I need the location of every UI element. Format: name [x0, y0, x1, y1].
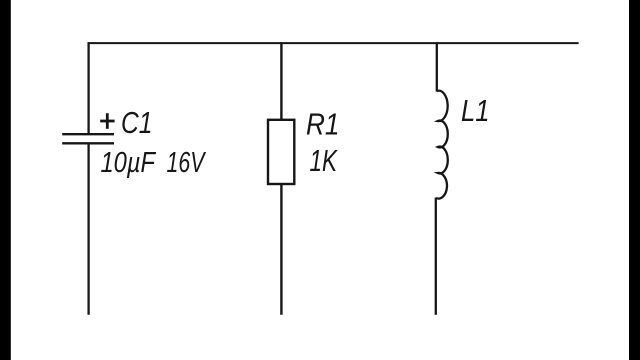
right black bar [629, 0, 640, 360]
wire L1 top [436, 42, 438, 91]
svg-text:R1: R1 [306, 108, 340, 142]
wire L1 bottom [435, 198, 437, 315]
wire R1 bottom [280, 183, 282, 315]
wire top bus [88, 42, 579, 44]
wire C1 bottom [87, 143, 89, 314]
left black bar [0, 0, 11, 360]
inductor L1 [436, 91, 448, 199]
svg-text:L1: L1 [461, 94, 490, 128]
svg-text:16V: 16V [167, 147, 207, 179]
svg-text:1K: 1K [310, 144, 339, 178]
svg-text:C1: C1 [121, 106, 153, 140]
C1 polarity plus [100, 113, 114, 129]
svg-text:10µF: 10µF [101, 147, 157, 179]
wire R1 top [280, 42, 282, 121]
wire C1 top [87, 42, 89, 134]
resistor R1 [268, 120, 294, 184]
capacitor C1 [62, 134, 114, 143]
